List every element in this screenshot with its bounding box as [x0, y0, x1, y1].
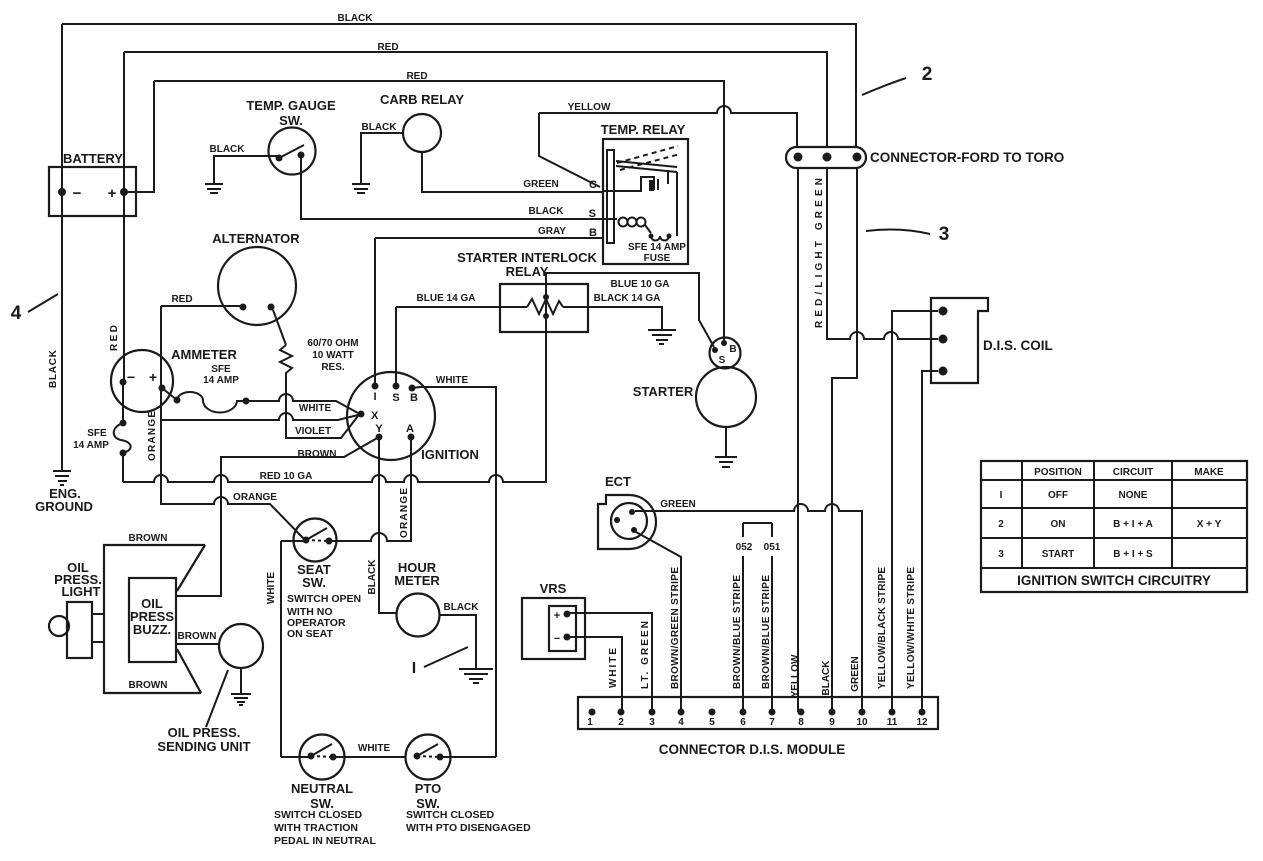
svg-text:VRS: VRS: [540, 581, 567, 596]
svg-text:X: X: [371, 410, 379, 422]
svg-text:I: I: [373, 391, 376, 403]
svg-text:AMMETER: AMMETER: [171, 347, 237, 362]
svg-text:ORANGE: ORANGE: [147, 411, 158, 461]
svg-text:LT. GREEN: LT. GREEN: [640, 621, 651, 689]
svg-text:RED: RED: [109, 325, 120, 351]
svg-text:X + Y: X + Y: [1197, 519, 1222, 530]
svg-text:STARTER INTERLOCK: STARTER INTERLOCK: [457, 250, 597, 265]
svg-text:SFE: SFE: [87, 428, 107, 439]
svg-text:BLACK: BLACK: [338, 13, 374, 24]
svg-text:NONE: NONE: [1119, 490, 1148, 501]
svg-text:BROWN: BROWN: [129, 680, 168, 691]
svg-text:BLUE 10 GA: BLUE 10 GA: [611, 279, 670, 290]
svg-text:10 WATT: 10 WATT: [312, 350, 353, 361]
svg-text:RED: RED: [377, 42, 398, 53]
svg-text:SW.: SW.: [279, 113, 303, 128]
svg-text:WHITE: WHITE: [358, 743, 391, 754]
svg-text:TEMP. RELAY: TEMP. RELAY: [601, 122, 686, 137]
svg-text:10: 10: [856, 717, 868, 728]
svg-text:I: I: [412, 660, 416, 677]
svg-text:YELLOW/BLACK STRIPE: YELLOW/BLACK STRIPE: [877, 567, 888, 689]
svg-text:ON SEAT: ON SEAT: [287, 628, 333, 640]
svg-text:3: 3: [998, 549, 1004, 560]
svg-text:B + I + A: B + I + A: [1113, 519, 1153, 530]
svg-text:RELAY: RELAY: [506, 264, 549, 279]
svg-text:WHITE: WHITE: [608, 648, 619, 688]
svg-text:WITH PTO DISENGAGED: WITH PTO DISENGAGED: [406, 822, 531, 834]
svg-text:3: 3: [649, 717, 655, 728]
svg-text:BLACK 14 GA: BLACK 14 GA: [594, 293, 661, 304]
svg-text:BROWN/BLUE STRIPE: BROWN/BLUE STRIPE: [761, 575, 772, 689]
svg-text:ECT: ECT: [605, 474, 631, 489]
svg-text:BROWN/BLUE STRIPE: BROWN/BLUE STRIPE: [732, 575, 743, 689]
svg-text:S: S: [719, 355, 726, 366]
svg-text:PEDAL IN NEUTRAL: PEDAL IN NEUTRAL: [274, 835, 376, 847]
svg-text:LIGHT: LIGHT: [62, 584, 101, 599]
svg-text:CONNECTOR D.I.S. MODULE: CONNECTOR D.I.S. MODULE: [659, 742, 846, 757]
svg-text:GREEN: GREEN: [850, 656, 861, 692]
svg-text:GROUND: GROUND: [35, 499, 93, 514]
svg-text:BROWN/GREEN STRIPE: BROWN/GREEN STRIPE: [670, 567, 681, 689]
svg-text:OIL PRESS.: OIL PRESS.: [168, 725, 241, 740]
svg-text:IGNITION SWITCH CIRCUITRY: IGNITION SWITCH CIRCUITRY: [1017, 573, 1211, 588]
svg-text:SFE: SFE: [211, 364, 231, 375]
svg-text:C: C: [589, 179, 597, 191]
svg-text:+: +: [108, 185, 117, 202]
svg-text:S: S: [589, 208, 596, 220]
svg-text:VIOLET: VIOLET: [295, 426, 331, 437]
svg-text:12: 12: [916, 717, 928, 728]
svg-text:MAKE: MAKE: [1194, 467, 1224, 478]
svg-text:BROWN: BROWN: [129, 533, 168, 544]
svg-text:5: 5: [709, 717, 715, 728]
svg-text:RED: RED: [406, 71, 427, 82]
svg-text:B: B: [729, 344, 736, 355]
svg-text:WITH TRACTION: WITH TRACTION: [274, 822, 358, 834]
svg-text:BATTERY: BATTERY: [63, 151, 123, 166]
svg-text:2: 2: [998, 519, 1004, 530]
svg-text:BLUE 14 GA: BLUE 14 GA: [417, 293, 476, 304]
svg-text:TEMP. GAUGE: TEMP. GAUGE: [246, 98, 336, 113]
svg-text:BLACK: BLACK: [444, 602, 480, 613]
svg-text:B + I + S: B + I + S: [1113, 549, 1153, 560]
svg-text:RED 10 GA: RED 10 GA: [260, 471, 313, 482]
svg-text:2: 2: [618, 717, 624, 728]
svg-text:WHITE: WHITE: [299, 403, 332, 414]
svg-text:SFE 14 AMP: SFE 14 AMP: [628, 242, 686, 253]
svg-text:YELLOW: YELLOW: [568, 102, 611, 113]
svg-text:ORANGE: ORANGE: [399, 488, 410, 538]
svg-text:3: 3: [939, 224, 950, 245]
svg-text:NEUTRAL: NEUTRAL: [291, 781, 353, 796]
svg-text:SWITCH OPEN: SWITCH OPEN: [287, 593, 361, 605]
svg-text:GREEN: GREEN: [523, 179, 559, 190]
svg-text:S: S: [392, 392, 399, 404]
svg-text:POSITION: POSITION: [1034, 467, 1082, 478]
svg-text:METER: METER: [394, 573, 440, 588]
svg-text:RED/LIGHT GREEN: RED/LIGHT GREEN: [814, 178, 825, 328]
svg-text:CARB RELAY: CARB RELAY: [380, 92, 464, 107]
svg-text:ON: ON: [1051, 519, 1066, 530]
svg-text:YELLOW: YELLOW: [790, 654, 801, 697]
svg-text:14 AMP: 14 AMP: [73, 440, 109, 451]
svg-text:I: I: [1000, 490, 1003, 501]
svg-text:SWITCH CLOSED: SWITCH CLOSED: [274, 809, 362, 821]
svg-text:BLACK: BLACK: [529, 206, 565, 217]
svg-text:RES.: RES.: [321, 362, 345, 373]
svg-text:+: +: [149, 369, 157, 385]
svg-text:RED: RED: [171, 294, 192, 305]
svg-text:FUSE: FUSE: [644, 253, 671, 264]
svg-text:7: 7: [769, 717, 775, 728]
svg-text:−: −: [554, 633, 560, 645]
svg-text:BLACK: BLACK: [362, 122, 398, 133]
svg-text:START: START: [1042, 549, 1075, 560]
svg-text:2: 2: [922, 64, 933, 85]
svg-text:14 AMP: 14 AMP: [203, 375, 239, 386]
svg-text:A: A: [406, 423, 414, 435]
svg-text:051: 051: [764, 542, 781, 553]
svg-text:WHITE: WHITE: [436, 375, 469, 386]
svg-text:1: 1: [587, 717, 593, 728]
svg-text:Y: Y: [375, 423, 383, 435]
svg-text:BLACK: BLACK: [210, 144, 246, 155]
svg-text:STARTER: STARTER: [633, 384, 694, 399]
svg-text:8: 8: [798, 717, 804, 728]
svg-text:GRAY: GRAY: [538, 226, 566, 237]
svg-text:BLACK: BLACK: [821, 660, 832, 696]
svg-text:CONNECTOR-FORD TO TORO: CONNECTOR-FORD TO TORO: [870, 150, 1064, 165]
svg-text:BUZZ.: BUZZ.: [133, 622, 171, 637]
svg-text:60/70 OHM: 60/70 OHM: [307, 338, 358, 349]
svg-text:YELLOW/WHITE STRIPE: YELLOW/WHITE STRIPE: [906, 567, 917, 689]
svg-text:B: B: [410, 392, 418, 404]
svg-text:−: −: [127, 369, 135, 385]
svg-text:ALTERNATOR: ALTERNATOR: [212, 231, 300, 246]
svg-text:052: 052: [736, 542, 753, 553]
svg-text:BROWN: BROWN: [298, 449, 337, 460]
svg-text:IGNITION: IGNITION: [421, 447, 479, 462]
svg-text:CIRCUIT: CIRCUIT: [1113, 467, 1154, 478]
svg-text:BROWN: BROWN: [178, 631, 217, 642]
svg-text:WHITE: WHITE: [266, 572, 277, 605]
svg-text:6: 6: [740, 717, 746, 728]
svg-text:SENDING UNIT: SENDING UNIT: [157, 739, 250, 754]
svg-text:OFF: OFF: [1048, 490, 1068, 501]
svg-text:BLACK: BLACK: [48, 349, 59, 388]
svg-text:+: +: [554, 610, 560, 622]
svg-text:SW.: SW.: [302, 575, 326, 590]
svg-text:4: 4: [678, 717, 684, 728]
svg-text:PTO: PTO: [415, 781, 442, 796]
svg-text:SWITCH CLOSED: SWITCH CLOSED: [406, 809, 494, 821]
svg-text:−: −: [73, 185, 82, 202]
svg-text:9: 9: [829, 717, 835, 728]
svg-text:ORANGE: ORANGE: [233, 492, 277, 503]
svg-text:D.I.S. COIL: D.I.S. COIL: [983, 338, 1053, 353]
svg-text:11: 11: [887, 717, 898, 728]
svg-text:4: 4: [11, 303, 22, 324]
svg-text:BLACK: BLACK: [367, 559, 378, 595]
svg-text:GREEN: GREEN: [660, 499, 696, 510]
